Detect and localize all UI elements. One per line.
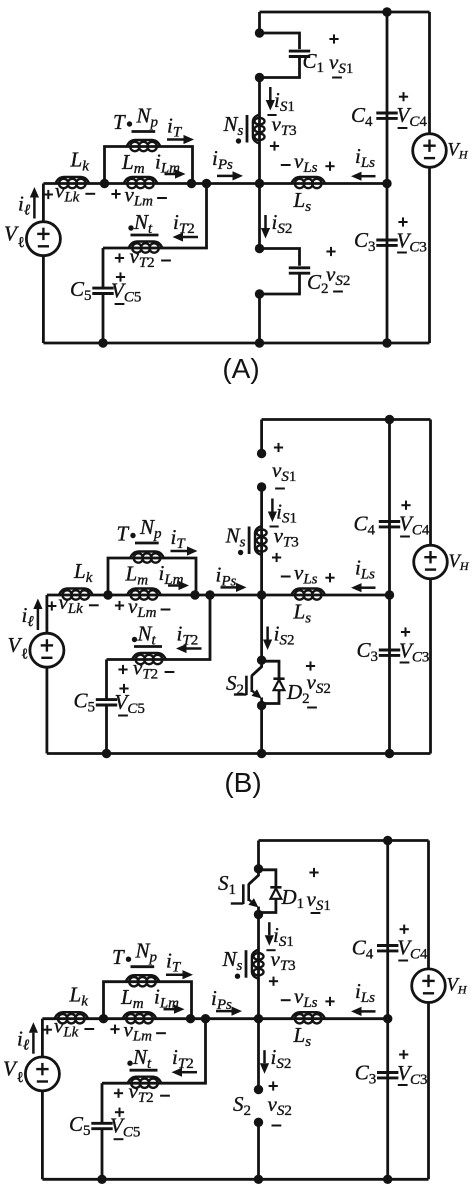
wire C4 rail <box>388 420 391 596</box>
transistor S1 <box>249 869 259 885</box>
capacitor C2 loop <box>260 249 300 266</box>
wire S2 to bottom bus <box>257 1122 260 1179</box>
svg-text:ℓ: ℓ <box>17 1070 24 1086</box>
node center junction <box>255 179 264 188</box>
source VH <box>414 545 448 579</box>
arrow iS2 <box>264 215 267 228</box>
core bar Nt <box>134 645 162 648</box>
core bar Np <box>132 130 156 133</box>
source VH <box>412 969 446 1003</box>
winding Nt coil <box>132 653 166 660</box>
wire C1 to Ns <box>258 78 261 113</box>
label vT3 <box>270 526 279 528</box>
label vLk <box>43 1029 52 1031</box>
winding Np coil <box>127 140 161 147</box>
arrow iS1 <box>271 499 274 512</box>
wire C3 rail <box>388 595 391 754</box>
wire top corner to C1 <box>258 12 261 33</box>
wire VH rail upper <box>429 420 432 546</box>
capacitor C5 <box>96 698 117 701</box>
label vS2 <box>306 665 315 667</box>
label vLm <box>115 605 124 607</box>
label Nt with dot <box>132 637 137 642</box>
wire left rail lower <box>41 1091 44 1180</box>
svg-text:(B): (B) <box>224 767 261 798</box>
label VC5 <box>115 1111 124 1113</box>
wire Ns to center node <box>258 146 261 184</box>
arrow iS2 <box>266 627 269 640</box>
label VC5 <box>116 276 125 278</box>
arrow il <box>32 1033 35 1054</box>
winding Np branch wire <box>108 558 196 595</box>
node C2 top <box>255 244 264 253</box>
wire C5 to bottom bus <box>105 705 108 753</box>
inductor Lm <box>123 1012 157 1019</box>
inductor Lk <box>59 589 93 596</box>
node C2 bottom <box>255 289 264 298</box>
svg-text:T: T <box>117 522 130 546</box>
capacitor C1 loop <box>260 33 300 49</box>
winding Ns coil <box>260 524 263 558</box>
arrow iS2 <box>263 1050 266 1063</box>
wire Ns to center node <box>257 981 260 1019</box>
winding Nt branch wire <box>107 595 211 660</box>
winding Ns coil <box>257 947 260 981</box>
node bottom bus center junction <box>255 338 264 347</box>
label VC5 <box>119 688 128 690</box>
inductor Lk <box>56 177 90 184</box>
node C1 top <box>255 28 264 37</box>
label vS1 <box>274 447 283 449</box>
wire middle bus <box>43 182 387 185</box>
transistor S2 <box>252 660 262 676</box>
wire VH rail lower <box>428 168 431 344</box>
source Vl <box>25 1057 59 1091</box>
node C-rail middle junction <box>383 1014 392 1023</box>
svg-text:ℓ: ℓ <box>18 235 25 251</box>
node C-rail middle junction <box>385 590 394 599</box>
wire center to C2 <box>258 184 261 249</box>
label vS2 <box>326 251 335 253</box>
switch S1 open (off) <box>257 449 266 458</box>
label VC3 <box>398 221 407 223</box>
inductor Ls <box>291 177 325 184</box>
wire VH rail lower <box>429 579 432 754</box>
node middle-left junction <box>103 590 112 599</box>
capacitor C4 <box>377 944 398 947</box>
svg-text:ℓ: ℓ <box>21 646 28 662</box>
wire top bus <box>260 11 430 14</box>
arrow il <box>33 198 36 219</box>
capacitor C3 <box>377 1071 398 1074</box>
label Nt with dot <box>128 225 133 230</box>
svg-text:(A): (A) <box>222 353 259 384</box>
node top bus C-rail junction <box>385 415 394 424</box>
node Np-branch right junction <box>187 179 196 188</box>
label VC4 <box>400 928 409 930</box>
node bottom bus C-rail junction <box>385 749 394 758</box>
wire S1 to Ns <box>260 487 263 524</box>
wire left rail lower <box>42 256 45 344</box>
node middle-left junction <box>99 1014 108 1023</box>
winding Nt branch wire <box>102 1019 206 1083</box>
label vLk <box>47 605 56 607</box>
wire top bus <box>259 839 429 842</box>
label vT2 <box>114 1092 123 1094</box>
wire bottom bus <box>47 752 431 755</box>
winding Nt branch wire <box>103 184 207 249</box>
label VC4 <box>401 504 410 506</box>
node top bus C-rail junction <box>383 836 392 845</box>
label vLs <box>281 576 291 578</box>
node Nt-branch top junction <box>201 1014 210 1023</box>
wire C4 rail <box>386 841 389 1019</box>
core bar Ns <box>246 115 249 143</box>
node Nt-branch top junction <box>202 179 211 188</box>
wire VH rail lower <box>427 1003 430 1180</box>
source Vl <box>26 222 60 256</box>
label Nt with dot <box>127 1061 132 1066</box>
node middle-left junction <box>100 179 109 188</box>
winding Np coil <box>126 975 160 982</box>
wire middle bus <box>42 1017 387 1020</box>
wire middle bus <box>47 594 390 597</box>
wire top corner to S1 <box>257 841 260 869</box>
capacitor C5 <box>92 287 113 290</box>
node bottom bus C-rail junction <box>383 1175 392 1184</box>
winding Ns coil <box>258 112 261 146</box>
wire left rail upper <box>42 184 45 222</box>
wire C3 rail <box>386 184 389 344</box>
node center junction <box>257 590 266 599</box>
arrow il <box>37 609 40 630</box>
winding Nt coil <box>129 242 163 249</box>
core bar Nt <box>130 1069 158 1072</box>
node bottom bus C5 junction <box>97 1175 106 1184</box>
node bottom bus center junction <box>257 749 266 758</box>
node C-rail middle junction <box>382 179 391 188</box>
core bar Nt <box>131 234 159 237</box>
label VC4 <box>399 96 408 98</box>
core bar Np <box>135 542 159 545</box>
source VH <box>413 134 447 168</box>
label vT2 <box>115 257 124 259</box>
label vLs <box>281 164 291 166</box>
wire S1 to Ns <box>257 915 260 948</box>
wire left rail lower <box>46 667 49 754</box>
wire bottom bus <box>42 1178 428 1181</box>
label vT3 <box>266 949 275 951</box>
wire top bus <box>262 418 431 421</box>
label VC3 <box>399 1054 408 1056</box>
node bottom bus C5 junction <box>102 749 111 758</box>
inductor Lm <box>124 177 158 184</box>
svg-text:T: T <box>113 110 126 134</box>
node Np-branch right junction <box>190 590 199 599</box>
wire C5 to bottom bus <box>101 1129 104 1179</box>
core bar Ns <box>248 527 251 555</box>
inductor Lk <box>55 1012 89 1019</box>
wire C2 to bottom bus <box>258 294 261 343</box>
capacitor C3 <box>379 649 400 652</box>
wire left rail upper <box>46 595 49 633</box>
label VC3 <box>401 631 410 633</box>
winding Nt coil <box>128 1077 162 1084</box>
diode D1 <box>259 870 276 887</box>
arrow iS1 <box>269 87 272 100</box>
node bottom bus C-rail junction <box>382 338 391 347</box>
wire VH rail upper <box>428 12 431 134</box>
inductor Lm <box>127 589 161 596</box>
label vS2 <box>269 1085 278 1087</box>
wire Ns to center node <box>260 557 263 595</box>
label vLm <box>111 193 120 195</box>
label vLs <box>281 999 291 1001</box>
capacitor C4 <box>379 520 400 523</box>
capacitor C4 <box>376 112 397 115</box>
wire C4 rail <box>386 12 389 184</box>
wire VH rail upper <box>427 841 430 969</box>
node Nt-branch top junction <box>205 590 214 599</box>
winding Np branch wire <box>105 147 193 184</box>
label vT3 <box>267 114 276 116</box>
source Vl <box>30 633 64 667</box>
node Np-branch right junction <box>186 1014 195 1023</box>
core bar Np <box>131 965 155 968</box>
capacitor C5 <box>91 1122 112 1125</box>
wire center to S2 gap <box>257 1019 260 1090</box>
wire C3 rail <box>386 1019 389 1180</box>
wire top corner to S1 gap <box>260 420 263 454</box>
node top bus C-rail junction <box>382 7 391 16</box>
wire left rail upper <box>41 1019 44 1057</box>
wire S2 to bottom bus <box>260 706 263 754</box>
core bar Ns <box>245 950 248 978</box>
label vLk <box>44 194 53 196</box>
label vT2 <box>118 669 127 671</box>
node center junction <box>254 1014 263 1023</box>
arrow iS1 <box>268 922 271 935</box>
winding Np branch wire <box>104 982 192 1019</box>
capacitor C3 <box>376 239 397 242</box>
node bottom bus C5 junction <box>98 338 107 347</box>
label vS1 <box>329 38 338 40</box>
node bottom bus center junction <box>254 1175 263 1184</box>
winding Np coil <box>130 552 164 559</box>
node C1 bottom <box>255 73 264 82</box>
wire center to S2 <box>260 595 263 660</box>
inductor Ls <box>291 1012 325 1019</box>
wire bottom bus <box>43 342 429 345</box>
switch S2 open (off) <box>254 1085 263 1094</box>
wire C5 to bottom bus <box>102 294 105 343</box>
diode D2 <box>262 661 279 678</box>
svg-text:T: T <box>112 945 125 969</box>
inductor Ls <box>291 589 325 596</box>
label vS1 <box>309 872 318 874</box>
label vLm <box>110 1028 119 1030</box>
